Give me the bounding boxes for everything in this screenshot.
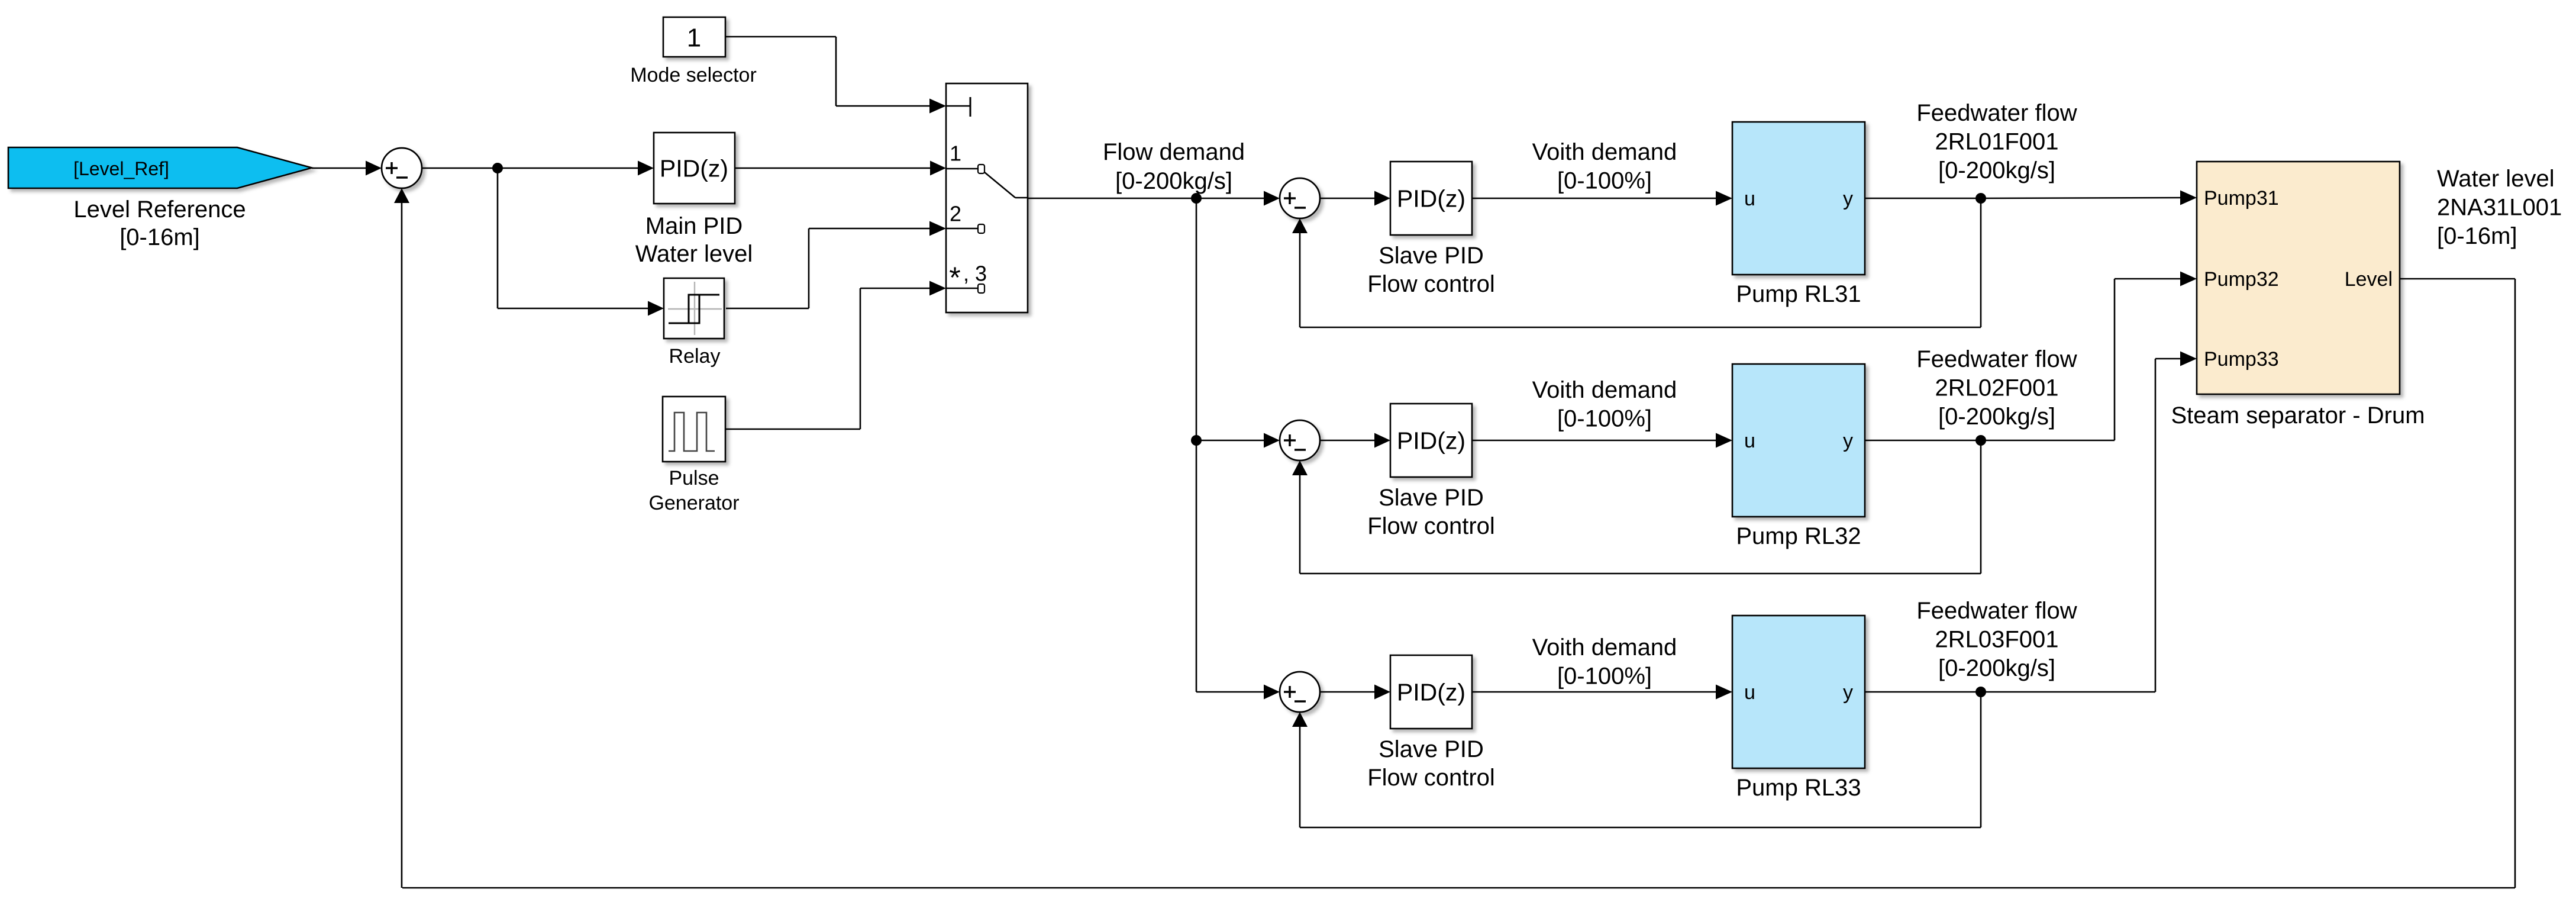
svg-text:Level: Level xyxy=(2345,268,2393,291)
svg-text:[0-200kg/s]: [0-200kg/s] xyxy=(1115,168,1232,194)
svg-text:[Level_Ref]: [Level_Ref] xyxy=(73,158,169,179)
svg-text:[0-16m]: [0-16m] xyxy=(120,224,200,250)
svg-text:, 3: , 3 xyxy=(963,262,987,286)
svg-text:u: u xyxy=(1744,430,1755,452)
svg-text:Water level: Water level xyxy=(635,241,753,267)
svg-text:PID(z): PID(z) xyxy=(1397,427,1465,454)
svg-text:Water level: Water level xyxy=(2437,166,2555,192)
svg-text:[0-200kg/s]: [0-200kg/s] xyxy=(1938,404,2055,430)
svg-text:Voith demand: Voith demand xyxy=(1532,139,1677,165)
svg-text:Feedwater flow: Feedwater flow xyxy=(1916,346,2077,372)
svg-text:Pump RL32: Pump RL32 xyxy=(1736,523,1861,549)
svg-text:Flow control: Flow control xyxy=(1367,513,1495,539)
svg-text:2RL02F001: 2RL02F001 xyxy=(1935,375,2058,401)
svg-text:1: 1 xyxy=(687,23,701,52)
svg-text:1: 1 xyxy=(950,141,961,166)
svg-text:[0-16m]: [0-16m] xyxy=(2437,223,2517,249)
svg-text:Flow control: Flow control xyxy=(1367,271,1495,297)
svg-text:[0-100%]: [0-100%] xyxy=(1557,168,1652,194)
svg-text:y: y xyxy=(1843,188,1853,210)
svg-text:Pump33: Pump33 xyxy=(2204,348,2279,371)
svg-text:Pulse: Pulse xyxy=(669,467,719,489)
svg-text:u: u xyxy=(1744,188,1755,210)
svg-text:Voith demand: Voith demand xyxy=(1532,634,1677,661)
svg-text:Flow demand: Flow demand xyxy=(1103,139,1245,165)
svg-text:u: u xyxy=(1744,681,1755,704)
svg-text:Pump RL33: Pump RL33 xyxy=(1736,775,1861,801)
svg-text:PID(z): PID(z) xyxy=(660,154,728,182)
svg-text:Voith demand: Voith demand xyxy=(1532,377,1677,403)
svg-text:PID(z): PID(z) xyxy=(1397,678,1465,706)
svg-text:Pump32: Pump32 xyxy=(2204,268,2279,291)
svg-text:2: 2 xyxy=(950,202,961,226)
svg-text:2RL03F001: 2RL03F001 xyxy=(1935,627,2058,653)
svg-text:y: y xyxy=(1843,681,1853,704)
svg-text:PID(z): PID(z) xyxy=(1397,185,1465,212)
svg-text:Pump31: Pump31 xyxy=(2204,187,2279,210)
svg-text:Level Reference: Level Reference xyxy=(73,197,246,223)
svg-text:Slave PID: Slave PID xyxy=(1379,243,1484,269)
svg-text:Slave PID: Slave PID xyxy=(1379,485,1484,511)
svg-text:[0-100%]: [0-100%] xyxy=(1557,663,1652,690)
svg-text:[0-100%]: [0-100%] xyxy=(1557,406,1652,432)
svg-text:Feedwater flow: Feedwater flow xyxy=(1916,100,2077,126)
svg-text:2RL01F001: 2RL01F001 xyxy=(1935,129,2058,155)
svg-text:Mode selector: Mode selector xyxy=(630,64,757,86)
svg-text:*: * xyxy=(949,261,960,294)
svg-text:2NA31L001: 2NA31L001 xyxy=(2437,195,2562,221)
svg-text:Feedwater flow: Feedwater flow xyxy=(1916,598,2077,624)
svg-text:Flow control: Flow control xyxy=(1367,765,1495,791)
svg-text:Generator: Generator xyxy=(648,492,739,514)
svg-text:Main PID: Main PID xyxy=(645,213,743,239)
svg-text:Relay: Relay xyxy=(669,345,721,368)
svg-text:y: y xyxy=(1843,430,1853,452)
svg-text:[0-200kg/s]: [0-200kg/s] xyxy=(1938,157,2055,183)
svg-text:[0-200kg/s]: [0-200kg/s] xyxy=(1938,655,2055,681)
svg-text:Pump RL31: Pump RL31 xyxy=(1736,281,1861,307)
svg-text:Steam separator - Drum: Steam separator - Drum xyxy=(2171,402,2425,429)
svg-text:Slave PID: Slave PID xyxy=(1379,736,1484,762)
